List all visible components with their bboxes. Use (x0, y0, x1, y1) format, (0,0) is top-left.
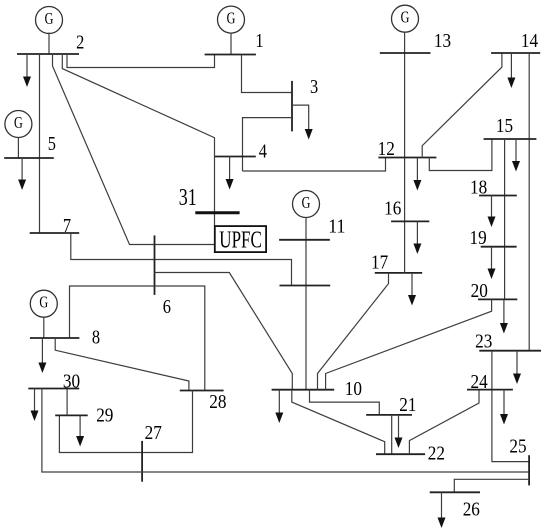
wire 10-21 (310, 390, 380, 415)
wire 2-1 (67, 54, 215, 68)
load arrow bus 3 (292, 105, 313, 139)
svg-text:4: 4 (259, 140, 267, 162)
bus 14 (491, 52, 540, 54)
svg-text:28: 28 (209, 391, 226, 413)
generator G at bus 13 (392, 5, 419, 32)
wire 6-10 (155, 273, 293, 390)
svg-text:G: G (401, 8, 410, 27)
bus 7 (30, 232, 79, 234)
load arrow bus 23 (513, 351, 521, 384)
load arrow bus 19 (488, 247, 496, 279)
wire 15-18-19-20 (504, 139, 506, 299)
generator G at bus 2 (36, 7, 63, 55)
bus 22 (376, 453, 425, 455)
svg-text:2: 2 (76, 31, 84, 53)
svg-text:30: 30 (63, 371, 80, 393)
svg-text:29: 29 (96, 404, 113, 426)
bus 15 (484, 138, 537, 140)
bus 12 (378, 157, 436, 159)
svg-text:5: 5 (48, 133, 56, 155)
generator G at bus 11 (293, 191, 320, 218)
wire 23-24-25 (492, 351, 529, 462)
svg-text:25: 25 (509, 435, 526, 457)
svg-text:G: G (227, 9, 236, 28)
bus 24 (467, 389, 513, 391)
bus 1 (205, 54, 256, 56)
bus 3 (291, 81, 293, 131)
svg-text:21: 21 (399, 394, 416, 416)
bus 29 (55, 414, 87, 416)
wire 14-15-23 (528, 53, 530, 351)
svg-text:31: 31 (179, 185, 197, 211)
wire 22-24 (409, 390, 479, 455)
bus 30 (28, 388, 79, 390)
generator G at bus 5 (5, 111, 32, 159)
load arrow bus 21 (395, 415, 403, 448)
bus 26 (430, 491, 480, 493)
wire 11-9-10 (305, 217, 307, 390)
wire 4-12 (243, 158, 386, 172)
bus 31 (195, 211, 239, 214)
bus 6 (154, 235, 156, 295)
bus 5 (4, 157, 54, 159)
wire 10-17 (318, 273, 389, 390)
load arrow bus 2 (23, 54, 31, 87)
generator G at bus 1 (218, 6, 245, 54)
svg-text:6: 6 (163, 296, 171, 318)
wire 12-14 (422, 53, 502, 158)
svg-text:27: 27 (145, 422, 162, 444)
wire 21-22 (391, 415, 393, 454)
wire 8-28 (55, 338, 189, 391)
load arrow bus 26 (438, 492, 446, 528)
load arrow bus 5 (18, 158, 26, 190)
UPFC box (215, 226, 266, 253)
bus 21 (366, 414, 412, 416)
svg-text:17: 17 (371, 252, 388, 274)
wire 2-6 (53, 54, 215, 245)
svg-text:7: 7 (63, 215, 71, 237)
wire 10-20 (326, 299, 492, 389)
svg-text:16: 16 (384, 197, 401, 219)
wire 10-22 (292, 390, 385, 455)
bus 4 (215, 156, 256, 158)
wire 7-6-9 (71, 233, 292, 286)
load arrow bus 24 (500, 390, 508, 425)
wire 2-4 (62, 54, 214, 226)
svg-text:18: 18 (470, 177, 487, 199)
svg-text:13: 13 (434, 30, 451, 52)
wire 30-29 (66, 389, 68, 416)
svg-text:26: 26 (463, 499, 480, 521)
load arrow bus 29 (76, 415, 84, 446)
load arrow bus 10 (275, 390, 283, 423)
wire 2-5-7 (39, 54, 41, 233)
svg-text:24: 24 (471, 371, 488, 393)
load arrow bus 17 (408, 273, 416, 306)
bus 8 (30, 337, 80, 339)
bus 13 (380, 52, 431, 54)
bus 20 (478, 298, 517, 300)
svg-text:23: 23 (475, 330, 492, 352)
bus 27 (141, 441, 143, 482)
svg-text:8: 8 (92, 327, 100, 349)
svg-text:G: G (45, 9, 54, 28)
bus 23 (479, 350, 541, 352)
svg-text:14: 14 (521, 30, 538, 52)
bus 25 (528, 455, 530, 485)
wire 30-27-25 (42, 389, 529, 473)
bus 17 (375, 272, 422, 274)
svg-text:G: G (39, 293, 48, 312)
bus 11 (279, 239, 330, 241)
svg-text:12: 12 (378, 138, 395, 160)
svg-text:10: 10 (345, 378, 362, 400)
load arrow bus 8 (38, 338, 46, 373)
generator G at bus 8 (30, 290, 57, 338)
bus 10 (272, 389, 335, 391)
load arrow bus 14 (507, 53, 515, 88)
svg-text:3: 3 (310, 76, 318, 98)
load arrow bus 20 (500, 299, 508, 333)
svg-text:G: G (14, 113, 23, 132)
svg-text:20: 20 (471, 280, 488, 302)
load arrow bus 15 (512, 139, 520, 172)
bus 9 (280, 285, 331, 287)
svg-text:19: 19 (470, 227, 487, 249)
wire 13-12-16-17 (404, 32, 406, 273)
wire 3-4 (243, 118, 293, 171)
wire 12-15 (429, 139, 492, 171)
svg-text:G: G (302, 193, 311, 212)
svg-text:15: 15 (496, 115, 513, 137)
load arrow bus 16 (413, 221, 421, 254)
load arrow bus 30 (31, 389, 39, 422)
bus 2 (17, 53, 79, 55)
wire 1-3 (242, 55, 293, 93)
wire 28-27-29 (59, 391, 192, 453)
wire 8-6-28 (70, 286, 205, 391)
bus 28 (180, 390, 224, 392)
svg-text:UPFC: UPFC (219, 227, 261, 253)
svg-text:1: 1 (255, 30, 263, 52)
bus 16 (391, 220, 429, 222)
load arrow bus 4 (226, 157, 234, 190)
load arrow bus 18 (488, 196, 496, 228)
svg-text:22: 22 (428, 443, 445, 465)
load arrow bus 12 (413, 158, 421, 191)
svg-text:11: 11 (328, 215, 345, 237)
bus 18 (479, 195, 517, 197)
wire 25-26 (454, 479, 529, 492)
bus 19 (481, 246, 517, 248)
